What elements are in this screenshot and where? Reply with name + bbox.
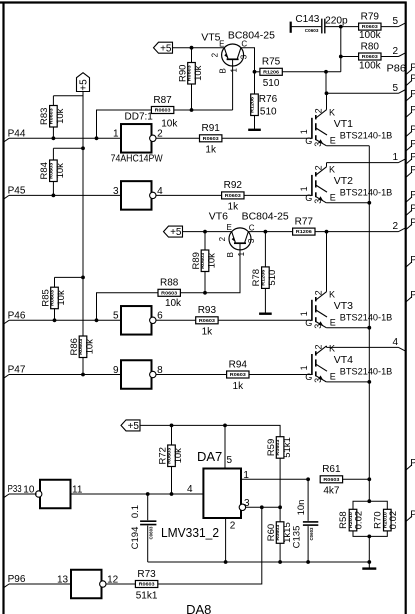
svg-text:510: 510: [263, 78, 280, 89]
svg-text:1: 1: [243, 470, 249, 481]
svg-text:P8: P8: [410, 255, 415, 266]
svg-text:1k: 1k: [202, 327, 214, 338]
svg-text:G: G: [305, 136, 312, 146]
resistor R92: [222, 180, 244, 213]
svg-text:74AHC14PW: 74AHC14PW: [111, 154, 163, 165]
wire R80 left: [341, 56, 359, 58]
svg-text:R0603: R0603: [161, 290, 178, 295]
wire emitter bus: [368, 146, 370, 502]
resistor R85: [54, 277, 56, 287]
right connector pin 4 at y=347.4: [392, 337, 405, 351]
resistor R73: [135, 569, 157, 602]
svg-text:LMV331_2: LMV331_2: [161, 525, 219, 540]
right off-page pin P at y=458.8: [406, 458, 415, 470]
node C143/R79/R80: [339, 25, 343, 29]
DA7 pin 3 bubble: [239, 498, 280, 510]
svg-text:51k1: 51k1: [136, 590, 158, 601]
resistor R88: [158, 278, 182, 309]
svg-text:VT2: VT2: [334, 175, 353, 187]
node P44/R87 branch: [95, 136, 99, 140]
transistor VT3: [299, 232, 369, 329]
right off-page pin P at y=89.7: [406, 89, 415, 101]
resistor R87: [151, 95, 178, 130]
svg-text:2: 2: [392, 221, 398, 232]
svg-text:G: G: [305, 318, 312, 328]
svg-text:C0603: C0603: [309, 527, 314, 541]
svg-text:R84: R84: [39, 162, 50, 179]
svg-text:R1206: R1206: [263, 69, 280, 74]
svg-text:P8: P8: [410, 89, 415, 100]
wire R79 to pin: [381, 26, 399, 28]
svg-text:3: 3: [313, 324, 323, 329]
svg-text:VT4: VT4: [334, 354, 353, 366]
wire +5 rail: [140, 425, 280, 436]
svg-text:4: 4: [392, 337, 398, 348]
node DA7 pin2/ground: [224, 560, 228, 564]
svg-text:R61: R61: [322, 464, 341, 475]
svg-text:3: 3: [240, 54, 249, 59]
ground symbol (rail): [368, 562, 370, 568]
svg-text:P8: P8: [410, 152, 415, 163]
svg-text:R0603: R0603: [199, 318, 216, 323]
resistor R70: [372, 509, 399, 531]
+5 power symbol (bottom): [121, 420, 140, 432]
svg-text:+5: +5: [79, 79, 90, 91]
right off-page pin P at y=106.0: [406, 105, 415, 117]
right connector pin 2 at y=231.6: [392, 221, 405, 232]
svg-text:R59: R59: [266, 439, 277, 456]
node R90 top: [190, 46, 194, 50]
svg-text:R0603: R0603: [323, 477, 340, 482]
right off-page pin P at y=74.4: [406, 74, 415, 86]
wire R76 to ground: [254, 116, 256, 130]
svg-text:1k: 1k: [233, 381, 245, 392]
svg-text:3: 3: [247, 238, 256, 243]
svg-text:C194: C194: [130, 527, 141, 550]
right off-page pin P at y=125.3: [406, 125, 415, 137]
svg-text:1: 1: [299, 365, 309, 370]
logic inverter DD7:3: [113, 306, 163, 335]
svg-text:R0603: R0603: [230, 372, 247, 377]
resistor R58: [338, 509, 365, 531]
svg-text:510: 510: [260, 107, 277, 118]
resistor R90: [191, 48, 193, 63]
svg-text:220p: 220p: [325, 16, 348, 27]
svg-text:3: 3: [313, 378, 323, 383]
svg-text:1: 1: [392, 152, 398, 163]
pin labels VT5: [210, 39, 248, 73]
resistor R76: [251, 94, 259, 116]
node ground rail/shunt: [367, 560, 371, 564]
svg-text:BTS2140-1B: BTS2140-1B: [340, 188, 393, 199]
svg-text:P8: P8: [410, 62, 415, 73]
wire R91 to VT1 gate: [222, 137, 312, 139]
logic inverter DD7:2: [113, 181, 163, 210]
wire K4 bus to pin 4: [327, 346, 399, 348]
svg-text:2: 2: [230, 521, 236, 532]
svg-text:B: B: [226, 252, 235, 257]
wire inv1 out: [156, 137, 199, 139]
svg-text:51k1: 51k1: [282, 437, 293, 458]
svg-text:11: 11: [72, 484, 83, 495]
svg-text:P8: P8: [410, 458, 415, 469]
transistor VT5: [222, 44, 244, 66]
svg-text:2: 2: [313, 108, 323, 113]
svg-text:E: E: [330, 135, 336, 145]
wire P96 to inv6: [9, 583, 71, 585]
node R85/P46: [53, 318, 57, 322]
svg-text:10k: 10k: [85, 339, 96, 355]
wire VT6 base: [180, 243, 240, 293]
svg-text:4k7: 4k7: [323, 486, 340, 497]
wire R78 to ground: [264, 288, 266, 313]
node R78 tap: [264, 230, 268, 234]
left connector pin P45: [4, 186, 26, 200]
svg-text:5: 5: [392, 16, 398, 27]
svg-text:C143: C143: [295, 14, 319, 25]
wire VT6 collector: [248, 231, 292, 233]
resistor R75: [260, 57, 282, 90]
svg-text:3: 3: [313, 199, 323, 204]
svg-text:VT5: VT5: [201, 32, 220, 44]
svg-text:B: B: [219, 68, 228, 73]
svg-text:R89: R89: [191, 252, 202, 269]
node C194 top: [146, 492, 150, 496]
right off-page pin P at y=63.2: [406, 62, 415, 74]
svg-text:R76: R76: [259, 94, 278, 105]
svg-text:G: G: [305, 193, 312, 203]
node shunt top: [367, 499, 371, 503]
svg-text:K: K: [329, 165, 335, 175]
svg-text:0.02: 0.02: [388, 511, 399, 530]
svg-text:R0603: R0603: [362, 24, 379, 29]
svg-text:R78: R78: [251, 269, 262, 286]
svg-text:P8: P8: [410, 290, 415, 301]
svg-text:2: 2: [313, 290, 323, 295]
svg-text:BTS2140-1B: BTS2140-1B: [340, 367, 393, 378]
svg-text:1: 1: [299, 186, 309, 191]
svg-text:P86: P86: [387, 64, 407, 75]
svg-text:3: 3: [244, 498, 250, 509]
transistor VT6: [229, 228, 251, 250]
svg-text:P8: P8: [410, 74, 415, 85]
svg-text:R83: R83: [39, 108, 50, 125]
svg-text:0.1: 0.1: [130, 505, 141, 518]
node R89 top: [203, 230, 207, 234]
svg-text:R0603: R0603: [139, 582, 156, 587]
wire P46 to R88: [97, 293, 159, 321]
svg-text:R92: R92: [224, 180, 243, 191]
resistor R80: [359, 41, 382, 71]
svg-text:10k: 10k: [55, 163, 66, 179]
+5 power symbol (VT5): [154, 42, 173, 54]
wire shunt bottom rail: [353, 531, 387, 537]
svg-text:+5: +5: [170, 227, 182, 238]
svg-text:R91: R91: [202, 123, 221, 134]
resistor R72: [171, 425, 173, 445]
svg-text:R94: R94: [229, 359, 248, 370]
node stem/R85 arm: [81, 276, 85, 280]
svg-text:2: 2: [218, 236, 227, 241]
svg-text:P8: P8: [410, 217, 415, 228]
svg-text:E: E: [330, 317, 336, 327]
wire P45 row: [9, 194, 121, 196]
svg-text:10k: 10k: [193, 65, 204, 81]
resistor R83: [52, 96, 54, 106]
resistor R89: [204, 232, 206, 250]
svg-text:E: E: [330, 372, 336, 382]
svg-text:10k: 10k: [207, 253, 218, 269]
wire VT5 collector: [241, 48, 255, 94]
svg-text:R93: R93: [198, 305, 217, 316]
svg-text:G: G: [305, 372, 312, 382]
svg-text:100k: 100k: [359, 61, 382, 72]
svg-text:2: 2: [313, 165, 323, 170]
left connector pin P44: [4, 129, 26, 143]
node R75/K1 drop: [324, 70, 328, 74]
node pin1/R61/C135: [306, 477, 310, 481]
wire R61 to emitter bus: [343, 478, 370, 480]
left connector pin P33: [4, 484, 22, 498]
resistor R61: [320, 464, 342, 497]
wire arm to R83: [53, 95, 83, 97]
svg-text:R1206: R1206: [250, 96, 255, 113]
transistor VT4: [299, 344, 369, 383]
left connector pin P46: [4, 311, 26, 325]
DA7 pin 4 wire: [70, 484, 203, 495]
svg-text:BTS2140-1B: BTS2140-1B: [340, 312, 393, 323]
node VT5 collector / R75: [253, 70, 257, 74]
svg-text:R1206: R1206: [296, 229, 313, 234]
wire R94 to VT4 gate: [249, 374, 312, 376]
resistor R94: [227, 359, 249, 392]
wire inv3 out: [156, 319, 196, 321]
right connector pin 1 at y=162.6: [392, 152, 405, 163]
resistor R93: [196, 305, 218, 338]
node pin3/R59/R60: [278, 505, 282, 509]
node pin3/R73 feedback: [260, 505, 264, 509]
wire R77 to pin 2: [315, 231, 399, 233]
wire P47 row: [9, 374, 121, 376]
right off-page pin P at y=166.0: [406, 165, 415, 177]
wire R75 out: [282, 71, 341, 73]
node R89 bottom: [203, 291, 207, 295]
wire R73 to pin3 node: [158, 507, 262, 584]
node R61/emitter bus: [367, 477, 371, 481]
svg-text:P8: P8: [410, 139, 415, 150]
DA7 pin 2: [226, 518, 236, 562]
svg-text:9: 9: [113, 365, 119, 376]
svg-text:10k: 10k: [165, 298, 182, 309]
node VT3 K tap: [325, 230, 329, 234]
svg-text:C: C: [241, 40, 247, 49]
svg-text:1: 1: [230, 68, 239, 73]
right off-page pin P at y=204.1: [406, 203, 415, 215]
resistor R86: [82, 358, 84, 375]
svg-text:0.02: 0.02: [354, 511, 365, 530]
svg-text:3: 3: [313, 142, 323, 147]
svg-text:DA8: DA8: [186, 602, 211, 614]
resistor R78: [264, 232, 266, 267]
wire P33 to inv5: [9, 493, 37, 495]
svg-text:5: 5: [392, 83, 398, 94]
left border: [2, 2, 4, 614]
svg-text:1: 1: [299, 311, 309, 316]
svg-text:R0603: R0603: [362, 54, 379, 59]
wire inv2 out: [156, 194, 222, 196]
svg-text:10n: 10n: [296, 500, 307, 516]
wire P44 row: [9, 137, 121, 139]
svg-text:1k: 1k: [205, 145, 217, 156]
svg-text:DA7: DA7: [197, 449, 222, 464]
capacitor C135: [292, 479, 319, 562]
right connector pin 5 at y=26.6: [392, 16, 405, 27]
wire P46 row: [9, 319, 121, 321]
capacitor C194: [130, 494, 157, 562]
wire P44 to R87: [97, 110, 152, 138]
node shunt bottom: [367, 535, 371, 539]
ground (R76): [248, 129, 261, 131]
wire inv6 out: [106, 583, 135, 585]
svg-text:10k: 10k: [173, 448, 184, 464]
svg-text:1k: 1k: [228, 202, 240, 213]
wire R93 to VT3 gate: [218, 319, 312, 321]
wire inv4 out: [156, 374, 227, 376]
svg-text:C0603: C0603: [149, 526, 154, 540]
svg-text:K: K: [329, 344, 335, 354]
right off-page pin P at y=510.1: [406, 509, 415, 521]
node VT4 emitter: [367, 380, 371, 384]
svg-text:R87: R87: [153, 95, 172, 106]
svg-text:10k: 10k: [55, 108, 66, 124]
svg-text:R0603: R0603: [203, 136, 220, 141]
wire to R79: [341, 26, 359, 28]
wire shunt to ground rail: [368, 536, 370, 562]
svg-text:10k: 10k: [161, 119, 178, 130]
left connector pin P96: [4, 574, 26, 588]
left connector pin P47: [4, 365, 26, 379]
node VT2 emitter: [367, 201, 371, 205]
pin labels VT6: [218, 223, 256, 257]
+5 power symbol (top): [77, 73, 90, 92]
svg-text:2: 2: [392, 46, 398, 57]
svg-text:R85: R85: [40, 289, 51, 306]
right connector pin 5 at y=93.3: [392, 83, 405, 94]
capacitor C143: [291, 14, 341, 33]
DA7 pin 1 wire: [241, 470, 308, 481]
wire R59 down to pin3 node: [279, 458, 281, 507]
ground (R78): [259, 313, 272, 315]
resistor R60: [279, 507, 281, 522]
svg-text:E: E: [227, 223, 232, 232]
svg-text:R73: R73: [137, 569, 156, 580]
svg-text:1: 1: [299, 129, 309, 134]
wire +5 stem: [82, 92, 84, 337]
wire collector junction to R75: [255, 71, 260, 73]
+5 power symbol (VT6): [164, 226, 183, 238]
svg-text:5: 5: [113, 311, 119, 322]
svg-text:1: 1: [237, 251, 246, 256]
wire ground rail: [148, 561, 370, 563]
svg-text:K: K: [329, 108, 335, 118]
svg-text:R0603: R0603: [225, 193, 242, 198]
svg-text:R79: R79: [361, 11, 380, 22]
wire R92 to VT2 gate: [244, 194, 312, 196]
svg-text:DD7:1: DD7:1: [125, 112, 154, 123]
wire +5 to VT5 emitter: [173, 47, 225, 49]
resistor R77: [293, 216, 315, 235]
svg-text:R88: R88: [160, 278, 179, 289]
right connector bus line: [405, 2, 407, 614]
svg-text:R72: R72: [157, 447, 168, 464]
wire +5 to VT6 emitter: [183, 231, 232, 233]
svg-text:BTS2140-1B: BTS2140-1B: [340, 130, 393, 141]
svg-text:C135: C135: [292, 526, 303, 549]
wire K2 bus to pin 1: [327, 162, 399, 164]
logic inverter DD7:6 (P96): [57, 570, 119, 599]
svg-text:1: 1: [113, 129, 119, 140]
svg-text:BC804-25: BC804-25: [228, 30, 275, 41]
svg-text:3: 3: [113, 186, 119, 197]
svg-text:R75: R75: [262, 57, 281, 68]
op-amp comparator DA7: [203, 469, 241, 519]
svg-text:+5: +5: [160, 43, 172, 54]
resistor R84: [52, 148, 54, 160]
svg-text:R77: R77: [295, 216, 314, 227]
wire K1 bus to pin 5: [327, 92, 399, 94]
right connector pin 2 at y=56.5: [392, 46, 405, 57]
node R72 bottom: [170, 492, 174, 496]
logic inverter DD7:1: [113, 124, 163, 153]
svg-text:5: 5: [226, 455, 232, 466]
node R60 bottom: [278, 560, 282, 564]
right off-page pin P at y=218.2: [406, 217, 415, 229]
node P46/R88 branch: [95, 318, 99, 322]
right off-page pin P at y=190.9: [406, 190, 415, 202]
svg-text:R60: R60: [266, 524, 277, 541]
right off-page pin P at y=139.6: [406, 139, 415, 151]
node K1 bus: [325, 91, 329, 95]
node R80 tap: [339, 55, 343, 59]
wire arm to R84: [53, 147, 83, 149]
svg-text:P8: P8: [410, 509, 415, 520]
resistor R79: [359, 11, 382, 41]
node R72 top: [170, 424, 174, 428]
svg-text:P8: P8: [410, 190, 415, 201]
right off-page pin P at y=152.8: [406, 152, 415, 164]
resistor R59: [266, 437, 293, 459]
node DA7 pin5: [223, 424, 227, 428]
logic inverter DD7:5 (P33): [23, 480, 83, 509]
svg-text:R80: R80: [361, 41, 380, 52]
wire arm to R85: [55, 276, 84, 278]
svg-text:VT6: VT6: [209, 211, 228, 223]
svg-text:100k: 100k: [359, 30, 382, 41]
wire R87 to base: [174, 109, 233, 111]
svg-text:C: C: [249, 223, 255, 232]
svg-text:P8: P8: [410, 203, 415, 214]
node R84/P45: [52, 194, 56, 198]
transistor VT2: [299, 163, 369, 204]
svg-text:R70: R70: [372, 511, 383, 528]
svg-text:E: E: [219, 39, 224, 48]
svg-text:K: K: [329, 290, 335, 300]
svg-text:R0603: R0603: [155, 108, 172, 113]
node R86/P47: [81, 373, 85, 377]
node R83/P44: [52, 136, 56, 140]
node stem/R84 arm: [81, 146, 85, 150]
svg-text:BC804-25: BC804-25: [242, 212, 289, 223]
